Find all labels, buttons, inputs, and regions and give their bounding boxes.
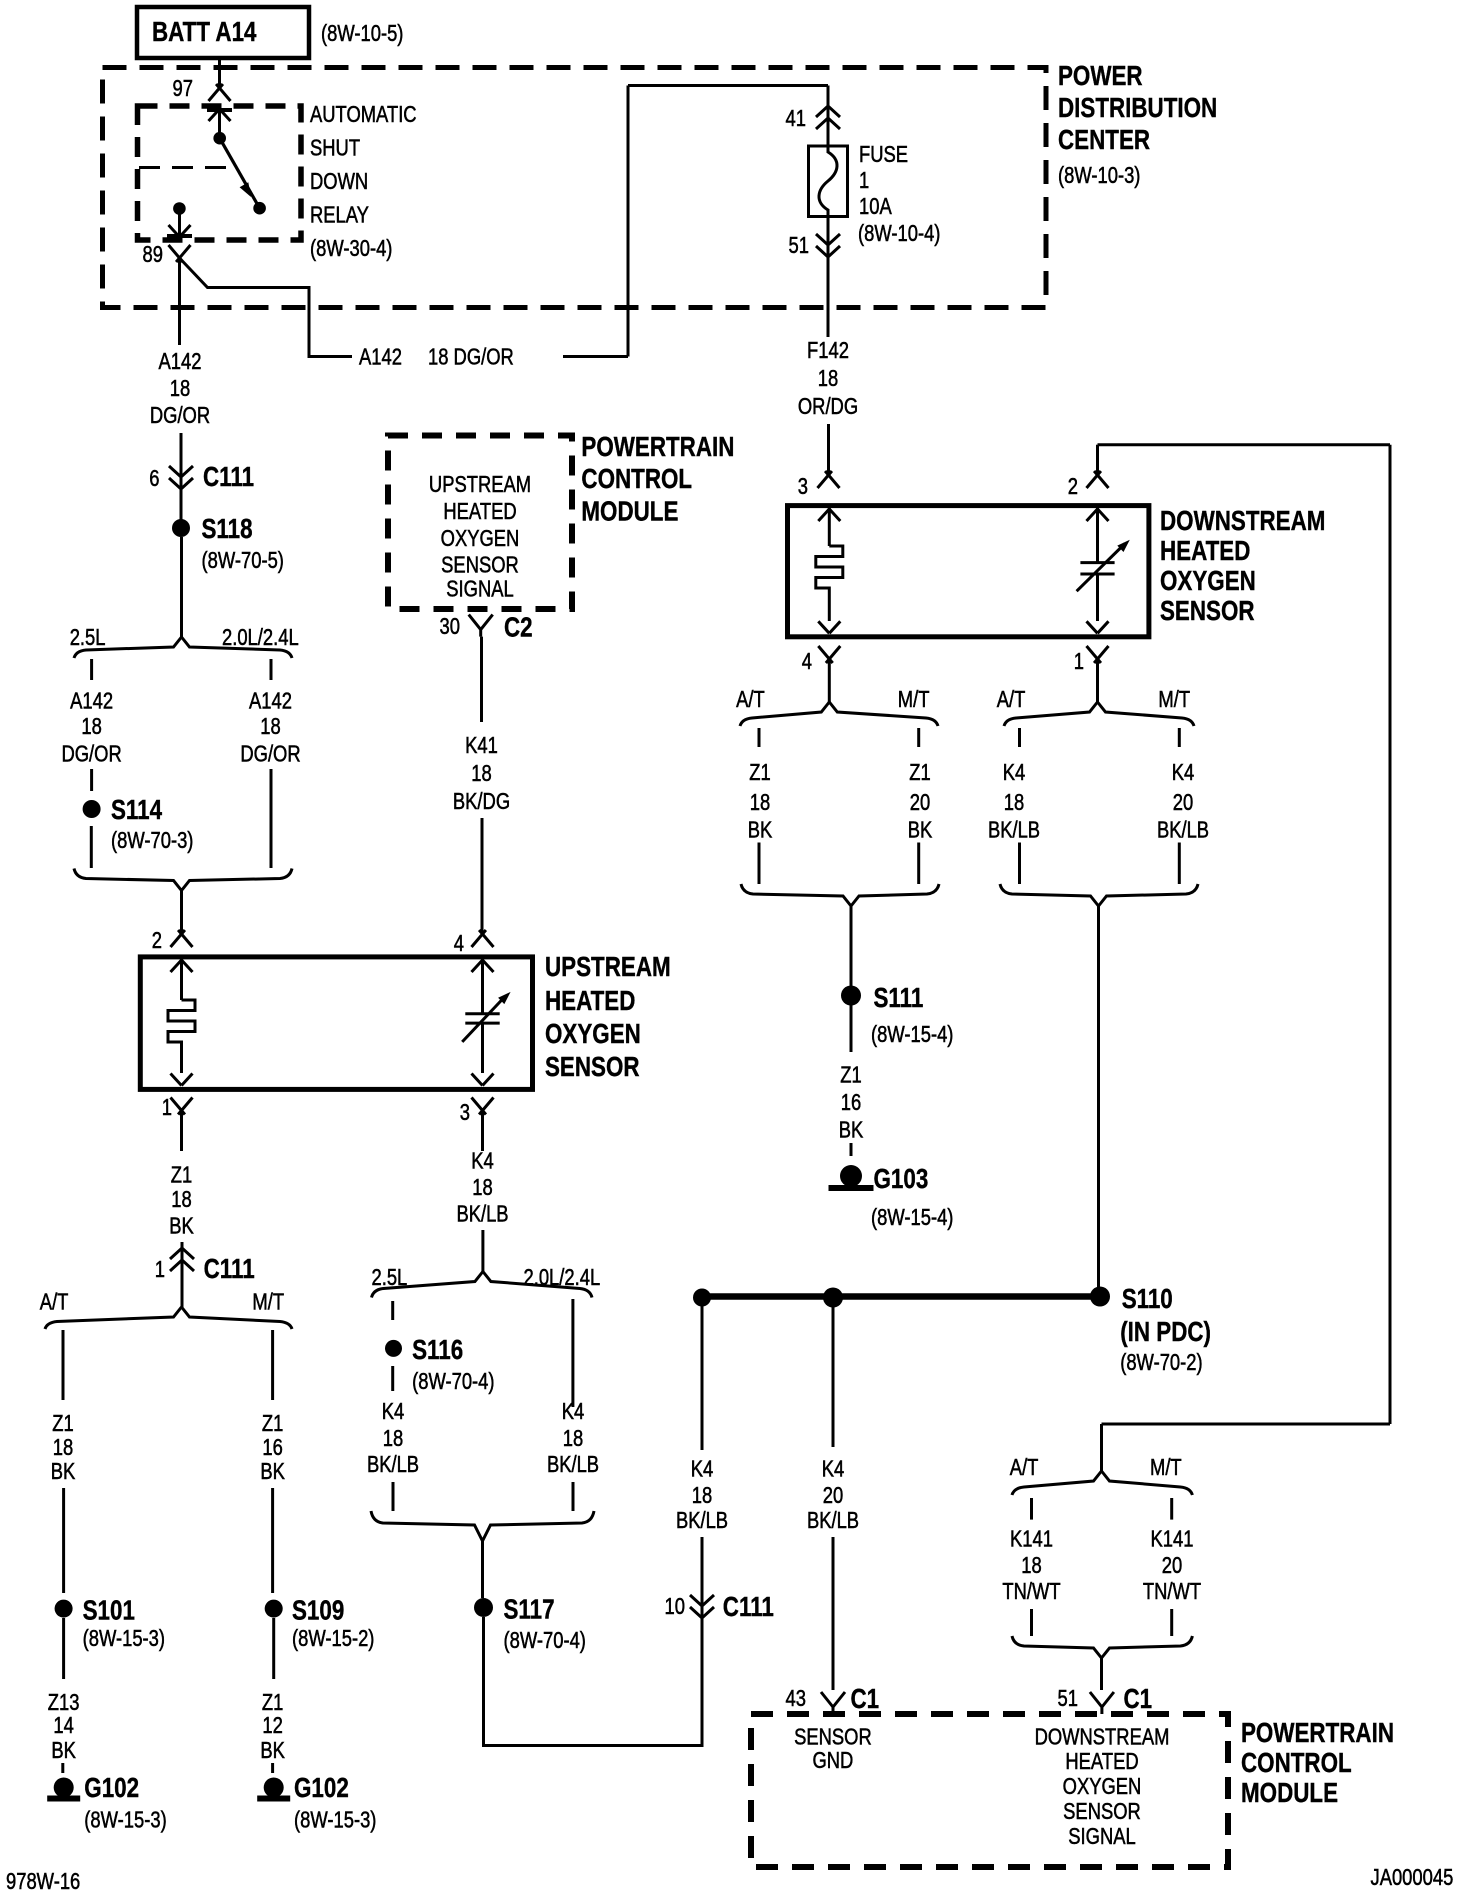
PDC label [1058,61,1217,189]
wire label K4 18 BK/LB (2.0L) [547,1399,599,1477]
svg-text:4: 4 [454,931,464,956]
pin 3 connector fork [798,471,840,500]
svg-text:K4: K4 [562,1399,585,1424]
svg-text:2: 2 [152,928,162,953]
svg-text:S110: S110 [1122,1284,1173,1315]
svg-text:BK: BK [839,1118,864,1143]
wire tick to G102 left [61,1763,64,1773]
pin 10 C111 connector [665,1537,774,1623]
battery feed BATT A14 box [137,7,403,58]
svg-text:Z1: Z1 [52,1411,73,1436]
svg-text:AUTOMATIC: AUTOMATIC [310,102,417,127]
wire Z1 18 to merge [758,843,761,885]
wire label A142 18 DG/OR (2.0L) [240,689,300,767]
wire pin 3 to split [481,1230,484,1272]
splice S109 [265,1595,375,1651]
ground G102 (M/T) [257,1773,376,1834]
svg-text:K141: K141 [1010,1527,1053,1552]
svg-text:BK/LB: BK/LB [988,818,1040,843]
svg-text:POWER: POWER [1058,61,1143,92]
signal merge to S117 [371,1511,594,1541]
relay switch blade [220,138,266,214]
svg-text:HEATED: HEATED [1065,1749,1138,1774]
pin 51 C1 connector [1058,1684,1153,1715]
upstream sense pin 3 arrow [472,1074,494,1086]
wire to S109 [271,1488,274,1593]
svg-text:S111: S111 [874,983,924,1014]
transmission split A/T M/T (left) [40,1290,292,1329]
svg-text:(8W-15-2): (8W-15-2) [292,1626,374,1651]
svg-text:1: 1 [1074,649,1084,674]
pin 3 connector fork [460,1098,494,1152]
wire pin 2 from right riser [1098,445,1391,1424]
K141 merge [1012,1636,1192,1658]
svg-text:4: 4 [802,649,812,674]
svg-text:CONTROL: CONTROL [581,464,692,495]
wire K141 18 to merge [1030,1609,1033,1636]
downstream sense pin 1 arrow [1087,621,1109,633]
downstream heater pin 4 arrow [818,621,840,633]
svg-text:Z1: Z1 [840,1063,861,1088]
svg-text:(8W-70-3): (8W-70-3) [111,828,193,853]
svg-text:14: 14 [53,1713,73,1738]
downstream heater pin 3 arrow [818,508,840,546]
wire fuse feed [827,86,830,147]
wire K141 A/T tick [1030,1498,1033,1520]
wire K4 20 to merge [1178,843,1181,885]
svg-text:1: 1 [155,1257,165,1282]
splice S116 [385,1335,495,1395]
wire S114 to merge [90,826,93,868]
power distribution center dashed box [103,68,1047,308]
svg-text:(8W-10-3): (8W-10-3) [1058,163,1140,188]
svg-text:18: 18 [472,1175,492,1200]
svg-text:20: 20 [1162,1553,1182,1578]
svg-text:A142: A142 [359,345,402,370]
svg-text:(8W-70-4): (8W-70-4) [412,1369,494,1394]
svg-text:G102: G102 [84,1773,139,1804]
svg-text:A/T: A/T [736,687,765,712]
engine split 2.5L / 2.0L-2.4L [70,625,299,658]
wire label K4 18 BK/LB [988,760,1040,843]
svg-text:SENSOR: SENSOR [441,553,519,578]
pin 2 connector fork [1068,471,1109,500]
svg-text:G103: G103 [874,1164,929,1195]
powertrain control module dashed box (upstream) [388,436,572,610]
svg-text:CONTROL: CONTROL [1241,1748,1352,1779]
svg-text:BATT A14: BATT A14 [152,17,256,48]
svg-text:18: 18 [563,1426,583,1451]
svg-text:BK/LB: BK/LB [1157,818,1209,843]
svg-text:(IN PDC): (IN PDC) [1120,1317,1211,1348]
svg-text:18: 18 [471,761,491,786]
svg-text:18: 18 [170,376,190,401]
wire to pin 43 [832,1537,835,1690]
PCM downstream signal label [1035,1725,1170,1850]
svg-text:K4: K4 [471,1148,494,1173]
svg-text:30: 30 [440,614,460,639]
svg-text:MODULE: MODULE [581,496,678,527]
svg-text:(8W-70-5): (8W-70-5) [202,548,284,573]
svg-text:DG/OR: DG/OR [240,742,300,767]
svg-text:A/T: A/T [40,1290,69,1315]
svg-text:20: 20 [823,1483,843,1508]
wire M/T branch [271,1330,274,1400]
wire S101 to G102 [62,1618,65,1679]
svg-text:16: 16 [841,1090,861,1115]
wire merge to S110 [1097,905,1100,1290]
wire label K141 20 TN/WT [1143,1527,1201,1605]
svg-text:3: 3 [798,474,808,499]
wire label Z1 16 BK (G103) [839,1063,864,1143]
wire label K4 18 BK/LB (pin3) [456,1148,508,1226]
wire label A142 18 DG/OR (2.5L) [61,689,121,767]
svg-text:OXYGEN: OXYGEN [1160,566,1256,597]
S110 label [1120,1284,1211,1376]
relay NC contact [173,202,186,215]
svg-text:DG/OR: DG/OR [61,742,121,767]
svg-text:RELAY: RELAY [310,203,369,228]
svg-text:(8W-70-4): (8W-70-4) [504,1628,586,1653]
wire 2.0L branch (signal) [571,1299,574,1407]
svg-text:M/T: M/T [252,1290,284,1315]
splice S117 [474,1594,586,1653]
svg-text:(8W-15-4): (8W-15-4) [871,1205,953,1230]
svg-text:18 DG/OR: 18 DG/OR [428,345,514,370]
svg-text:(8W-15-3): (8W-15-3) [294,1808,376,1833]
wire label Z1 16 BK (M/T) [260,1411,285,1484]
svg-text:41: 41 [786,106,806,131]
sheet number 978W-16 [6,1869,80,1894]
svg-text:A/T: A/T [997,687,1026,712]
wire S117 to C111 pin 10 [484,1617,703,1747]
ground G103 [829,1164,954,1231]
svg-text:K4: K4 [822,1457,845,1482]
wire label Z1 18 BK (pin1) [169,1163,194,1240]
pin 41 connector [786,106,840,132]
drawing number JA000045 [1371,1865,1454,1890]
transmission split A/T M/T (K141) [1010,1455,1193,1495]
svg-text:C1: C1 [1124,1684,1153,1715]
wire to S101 [62,1488,65,1593]
wire 2.5L branch tick [90,659,93,680]
downstream heater element [816,546,843,621]
wire label K141 18 TN/WT [1002,1527,1060,1605]
svg-text:Z1: Z1 [262,1411,283,1436]
wire S118 to split [180,537,183,637]
wire to pin 4 [481,818,484,934]
svg-text:K4: K4 [1003,760,1026,785]
wire label A142 18 DG/OR (branch) [359,345,514,370]
svg-text:M/T: M/T [1150,1455,1182,1480]
svg-text:Z1: Z1 [262,1690,283,1715]
svg-text:MODULE: MODULE [1241,1778,1338,1809]
svg-text:Z1: Z1 [749,760,770,785]
wire label K4 20 BK/LB (S110) [807,1457,859,1533]
upstream heater pin 1 arrow [171,1074,193,1086]
svg-text:18: 18 [53,1435,73,1460]
wire A/T tick (K4 18) [1018,728,1021,747]
svg-text:10: 10 [665,1594,685,1619]
wire riser to K141 split [1102,1424,1391,1471]
svg-text:SIGNAL: SIGNAL [1068,1824,1135,1849]
svg-text:OXYGEN: OXYGEN [441,526,520,551]
wire C111 pin 10 down [701,1618,704,1747]
downstream sensor label [1160,506,1325,627]
svg-text:(8W-10-5): (8W-10-5) [321,21,403,46]
svg-text:2: 2 [1068,474,1078,499]
svg-text:BK: BK [260,1738,285,1763]
svg-text:K4: K4 [691,1457,714,1482]
upstream sensor label [545,952,671,1083]
wire merge to pin 51 [1100,1657,1103,1690]
wire pin 89 branch to fuse [180,86,829,357]
wire K141 M/T tick [1170,1498,1173,1520]
wire S111 to G103 [850,1005,853,1052]
downstream heated oxygen sensor box [788,506,1149,637]
upstream heated oxygen sensor box [140,957,532,1090]
svg-text:18: 18 [81,714,101,739]
wire M/T tick (Z1 20) [917,728,920,747]
svg-text:SENSOR: SENSOR [1160,596,1255,627]
svg-text:UPSTREAM: UPSTREAM [545,952,671,983]
svg-text:2.0L/2.4L: 2.0L/2.4L [222,625,299,650]
svg-text:51: 51 [789,233,809,258]
upstream sensing element [462,992,510,1073]
wire A/T branch [62,1330,65,1400]
wire merge to pin 2 [180,890,183,935]
svg-text:BK: BK [908,818,933,843]
svg-text:CENTER: CENTER [1058,125,1150,156]
svg-text:S109: S109 [292,1595,344,1626]
wire pin 89 to C111 [178,258,181,345]
svg-text:18: 18 [1021,1553,1041,1578]
svg-text:1: 1 [162,1095,172,1120]
svg-text:S114: S114 [111,795,162,826]
svg-text:SIGNAL: SIGNAL [446,577,513,602]
engine merge to pin 2 [74,869,292,891]
svg-text:K4: K4 [382,1399,405,1424]
svg-text:M/T: M/T [898,687,930,712]
relay pin 97 arrow [207,108,232,134]
svg-text:978W-16: 978W-16 [6,1869,80,1894]
svg-text:89: 89 [143,242,163,267]
svg-text:UPSTREAM: UPSTREAM [429,472,531,497]
svg-text:HEATED: HEATED [545,986,635,1017]
wire BATT A14 to pin 97 [218,58,221,88]
wire 2.5L to S114 [90,769,93,791]
wire 2.5L tick [391,1301,394,1320]
svg-text:18: 18 [1004,790,1024,815]
automatic shut down relay dashed box [138,106,302,240]
wire label K41 18 BK/DG [453,733,510,814]
svg-text:BK: BK [51,1459,76,1484]
svg-text:POWERTRAIN: POWERTRAIN [581,432,734,463]
svg-text:C111: C111 [723,1592,774,1623]
svg-text:S101: S101 [83,1595,135,1626]
svg-text:C1: C1 [851,1684,880,1715]
svg-text:DG/OR: DG/OR [150,403,210,428]
wire label Z1 20 BK [908,760,933,843]
transmission split A/T M/T (heater gnd) [736,687,938,726]
svg-text:BK/DG: BK/DG [453,789,510,814]
pin 51 connector [789,217,840,259]
signal merge to S110 [1000,884,1198,906]
wire below S116 [391,1366,394,1391]
pin 30 C2 connector [440,612,533,643]
svg-text:OXYGEN: OXYGEN [1063,1774,1142,1799]
svg-text:SHUT: SHUT [310,136,360,161]
wire label Z1 12 BK [260,1690,285,1763]
wire S110 to C111 pin 10 [701,1306,704,1450]
splice S101 [55,1595,165,1651]
svg-text:2.0L/2.4L: 2.0L/2.4L [524,1265,601,1290]
fuse label [858,142,940,246]
fuse 1 10A [809,146,848,217]
svg-text:BK: BK [169,1214,194,1239]
svg-text:C111: C111 [204,1254,255,1285]
downstream sensing element [1077,540,1130,621]
svg-text:18: 18 [750,790,770,815]
wire S109 to G102 [272,1618,275,1679]
wire label A142 18 DG/OR (left) [150,349,210,428]
wire to pin 3 [827,424,830,475]
downstream sense pin 2 arrow [1087,508,1109,562]
svg-text:BK: BK [260,1459,285,1484]
ground G102 (A/T) [47,1773,167,1834]
svg-text:BK/LB: BK/LB [367,1452,419,1477]
svg-text:Z1: Z1 [909,760,930,785]
wire label K4 20 BK/LB [1157,760,1209,843]
svg-text:(8W-30-4): (8W-30-4) [310,236,392,261]
PCM label (top) [581,432,734,528]
svg-text:3: 3 [460,1100,470,1125]
powertrain control module dashed box (bottom) [751,1714,1228,1867]
wire tick to G103 [850,1143,853,1156]
svg-text:BK: BK [748,818,773,843]
svg-text:(8W-15-3): (8W-15-3) [84,1808,166,1833]
wire C2 to upstream sensor [480,637,483,722]
svg-text:OXYGEN: OXYGEN [545,1019,641,1050]
wire S110 to PCM pin 43 [832,1307,835,1447]
wire merge to S111 [850,905,853,986]
svg-text:10A: 10A [859,194,892,219]
svg-text:2.5L: 2.5L [70,625,106,650]
svg-text:18: 18 [692,1483,712,1508]
svg-text:DOWNSTREAM: DOWNSTREAM [1035,1725,1170,1750]
svg-text:18: 18 [383,1426,403,1451]
wire 2.0L-2.4L branch tick [270,659,273,680]
wire K4 18 to merge [1018,843,1021,885]
svg-text:(8W-15-3): (8W-15-3) [83,1626,165,1651]
upstream heater element [168,1000,195,1073]
svg-text:BK: BK [51,1738,76,1763]
svg-text:SENSOR: SENSOR [545,1052,640,1083]
svg-text:S117: S117 [504,1594,555,1625]
svg-text:Z1: Z1 [171,1163,192,1188]
svg-text:JA000045: JA000045 [1371,1865,1454,1890]
svg-text:97: 97 [173,76,193,101]
pin 4 connector fork [454,930,494,957]
svg-text:18: 18 [171,1187,191,1212]
svg-text:K141: K141 [1151,1527,1194,1552]
relay label [310,102,417,261]
wire 2.0L to merge [572,1482,575,1511]
relay coil divider dashed line [139,166,234,169]
svg-text:43: 43 [786,1686,806,1711]
svg-text:C2: C2 [504,612,533,643]
splice S110 bus [693,1287,1110,1308]
svg-text:TN/WT: TN/WT [1143,1579,1201,1604]
svg-text:BK/LB: BK/LB [676,1508,728,1533]
svg-text:POWERTRAIN: POWERTRAIN [1241,1718,1394,1749]
svg-text:A142: A142 [70,689,113,714]
wire label K4 18 BK/LB (2.5L) [367,1399,419,1477]
wire merge to S117 [481,1540,484,1598]
svg-text:SENSOR: SENSOR [1063,1799,1141,1824]
svg-text:DISTRIBUTION: DISTRIBUTION [1058,93,1217,124]
pin 89 connector fork [143,242,191,267]
wire label K4 18 BK/LB (S110) [676,1457,728,1533]
wire label Z1 18 BK [748,760,773,843]
wire A/T tick (Z1 18) [758,728,761,747]
wire label Z1 18 BK (A/T) [51,1411,76,1484]
svg-text:2.5L: 2.5L [372,1265,408,1290]
relay pin 89 arrow [167,214,192,237]
pin 1 connector fork [162,1095,193,1151]
svg-text:BK/LB: BK/LB [547,1452,599,1477]
svg-text:BK/LB: BK/LB [456,1201,508,1226]
splice S114 [83,795,194,854]
pin 6 C111 connector [149,433,254,520]
relay common contact [213,132,226,145]
svg-text:OR/DG: OR/DG [798,394,858,419]
svg-text:C111: C111 [203,462,254,493]
svg-text:Z13: Z13 [48,1690,80,1715]
svg-text:(8W-70-2): (8W-70-2) [1120,1350,1202,1375]
svg-text:K4: K4 [1172,760,1195,785]
svg-text:12: 12 [262,1713,282,1738]
pin 1 C111 connector [155,1242,255,1307]
svg-text:S118: S118 [202,514,253,545]
svg-text:18: 18 [818,366,838,391]
pin 4 connector fork [802,646,841,702]
svg-text:DOWNSTREAM: DOWNSTREAM [1160,506,1325,537]
svg-text:G102: G102 [294,1773,349,1804]
svg-text:51: 51 [1058,1686,1078,1711]
upstream heater pin 2 arrow [171,959,193,1000]
svg-text:6: 6 [149,466,159,491]
svg-text:GND: GND [812,1748,853,1773]
svg-text:1: 1 [859,168,869,193]
svg-text:BK/LB: BK/LB [807,1508,859,1533]
pin 2 connector fork [152,928,193,953]
wire 2.0L branch [270,769,273,868]
svg-text:F142: F142 [807,338,849,363]
wire K141 20 to merge [1170,1609,1173,1636]
heater ground merge [741,884,939,906]
svg-text:(8W-15-4): (8W-15-4) [871,1022,953,1047]
wire fuse to downstream sensor [827,257,830,337]
pin 97 connector fork [173,76,231,101]
svg-text:A142: A142 [249,689,292,714]
splice S118 [172,514,284,574]
svg-text:(8W-10-4): (8W-10-4) [858,221,940,246]
svg-text:TN/WT: TN/WT [1002,1579,1060,1604]
svg-text:A/T: A/T [1010,1455,1039,1480]
PCM label (bottom) [1241,1718,1394,1809]
svg-text:20: 20 [910,790,930,815]
